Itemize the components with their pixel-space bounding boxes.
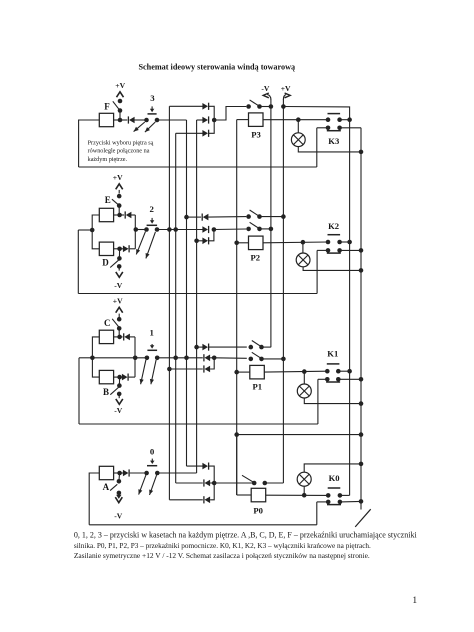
node: P2 row2 b [257,227,262,232]
wire: A lead to contact [118,473,121,481]
wire: bottom diode out [209,120,215,133]
press arm 1a [141,360,146,384]
bracket: C/B common [92,337,99,377]
wire: B merge corner [134,358,136,377]
wire: top diode line [187,216,202,218]
wire: lamp3 bottom to return bus [298,147,361,152]
svg-text:równolegle połączone na: równolegle połączone na [88,148,150,155]
node: E/D merge [134,227,139,232]
node: contact 0b [155,471,160,476]
node: K2 feed junction [347,240,352,245]
node: K1 lower b [336,377,341,382]
press arm 3a [134,122,145,132]
press arm 1b [151,360,156,384]
node: D switch lower dot [117,264,122,269]
wire: P3 drive line up [214,107,246,121]
diode floor2 top [203,214,209,221]
diode floor3 middle [202,117,208,124]
svg-text:K2: K2 [328,221,339,231]
svg-text:2: 2 [149,204,154,214]
svg-text:P2: P2 [251,252,261,262]
node: D switch upper dot [117,256,122,261]
wire: F contact to row [119,111,121,121]
svg-text:1: 1 [412,596,417,606]
node: K3 lower b [337,126,342,131]
-V terminal arrow (floor 1) [116,399,123,404]
node: contact 1b [155,356,160,361]
node: P2 row2 a [246,227,251,232]
node: +V top junction [281,104,286,109]
K2 lower closed-contact bar [327,252,341,254]
press arm 0b [150,475,157,495]
wire: floor1 top diode line [197,346,203,348]
svg-text:K0: K0 [329,473,340,483]
wire: -V bus [270,99,272,347]
node: K0 lower a [326,500,331,505]
pushbutton A [99,466,113,479]
wire: lamp2 top stem [302,242,304,253]
wire: left bus floor1 [78,358,80,424]
node: P2 row1 b [257,214,262,219]
node: P1 row2 b [259,357,264,362]
diode floor0 top [202,463,208,470]
node: P common tap [234,432,239,437]
wire: floor2 row to diode [157,229,203,231]
svg-text:P3: P3 [251,129,261,139]
node: lamp2 return junction [359,268,364,273]
wire: E merge corner [134,215,136,230]
wire: E contact down [118,206,120,215]
wire: P relay common bus [236,120,238,495]
relay coil P1 [250,365,264,379]
bridge bar of button 0 [147,465,157,467]
node: row junction bus B floor1 [173,356,178,361]
node: P1 row2 a [249,357,254,362]
wire: bus A top feed [169,105,202,107]
node: junction on bus E [194,239,199,244]
wire: C box right lead [114,336,120,338]
node: P3 contact a [246,104,251,109]
+V terminal arrow [285,93,291,98]
diode floor2 middle [202,226,208,233]
press arrow for button 1 [151,344,153,346]
wire: left bus floor2 [77,230,79,294]
diode at B [120,376,123,378]
node: P1 row1 b [259,345,264,350]
diode at D [120,248,124,250]
diode at A [120,472,124,474]
lamp L3 [291,133,305,147]
svg-text:3: 3 [150,93,155,103]
node: floor0 bracket junction [212,481,217,486]
diode at E [120,214,125,216]
press arrow for button 2 [151,218,153,221]
wire: P2 right lead to K2 [263,241,328,244]
node: -V tap [269,104,274,109]
wire: floor3 interconnect [79,166,317,168]
contactor K2 bridge bar [328,234,341,236]
wire: P1 left lead [237,371,250,373]
node: contact 3a [144,118,149,123]
node: K2 lower b [337,248,342,253]
-V terminal arrow (floor 2) [116,272,123,277]
wire: bottom diode to bracket [210,483,214,500]
wire: P2 row1 to +V [260,216,284,218]
wire: P0 left corner [236,435,238,495]
node: +V tap floor2 [281,214,286,219]
svg-text:C: C [104,318,111,328]
svg-text:+V: +V [113,296,123,305]
node: K2 return junction [359,248,364,253]
node: K1 feed junction [347,369,352,374]
node: P0 contact b [263,481,268,486]
wire: K3 lower left [317,127,328,129]
pushbutton B [99,370,113,383]
press arm 0a [139,475,146,495]
node: K3 upper b [337,117,342,122]
wire: +V bus [282,99,284,483]
wire: P1 row1 to -V bus end [262,346,271,348]
svg-text:Zasilanie symetryczne +12 V /: Zasilanie symetryczne +12 V / -12 V. Sch… [74,551,370,560]
wire: mid junction to P1 row2 [214,357,247,360]
wire: return bus [360,128,362,510]
node: K2 lower a [326,248,331,253]
node: C switch upper dot [117,317,122,322]
diode floor1 top [202,344,208,351]
node: bracket mid floor1 [90,356,95,361]
wire: K0 lower left [317,501,328,503]
contactor K3 bridge bar [328,113,341,115]
wire: lamp3 top stem [297,120,299,133]
wire: bus B to floor0 middle diode [176,482,203,484]
wire: P2 row2 to -V [260,228,271,230]
wire: K1 lower right to return bus [338,378,361,380]
relay coil P3 [249,113,264,127]
+V terminal arrow (floor 3) [117,92,124,97]
wire: bus B to bottom diode [176,132,203,134]
wire: bottom out up [210,358,214,369]
relay contact P0 (arm) [242,475,253,482]
node: return bus tap [359,432,364,437]
svg-text:-V: -V [261,84,270,93]
wire: K1 lower left [318,378,327,380]
wire: P1 row2 to +V [262,358,284,360]
wire: bus D to floor0 top diode [187,465,203,467]
node: row junction bus D floor1 [184,356,189,361]
node: K0 upper a [326,493,331,498]
node: K3 lower a [326,126,331,131]
wire: K0 upper b to feed bus [340,494,350,496]
node: junction at D button [117,247,122,252]
wire: K1 upper b to feed bus [338,370,349,372]
wire: bus A (x=169.4) [168,106,170,500]
wire: K2 lower left [317,249,328,251]
K0 lower closed-contact bar [327,504,341,506]
relay contact F (arm) [113,101,120,110]
wire: K0 lower right to return bus [340,500,361,503]
node: contact 3b [155,118,160,123]
wire: floor-3 call to bus D [157,119,187,121]
node: junction at A button [117,471,122,476]
node: junction at C button [117,335,122,340]
wire: P0 left lead [237,494,252,496]
node: F switch lower dot [118,108,123,113]
wire: D lead to contact [118,249,120,259]
svg-text:F: F [104,102,110,112]
node: P2 left junction [234,241,239,246]
svg-text:silnika. P0, P1, P2, P3 – prze: silnika. P0, P1, P2, P3 – przekaźniki po… [74,542,371,550]
node: B switch lower dot [117,392,122,397]
wire: floor1 row [92,357,146,359]
node: contact 2b [155,227,160,232]
wire: K2 upper b to feed bus [340,241,350,243]
svg-text:0: 0 [150,446,155,456]
press arm 2a [136,232,145,255]
bracket: E/D common [92,215,99,249]
svg-text:+V: +V [113,173,123,182]
wire: E box right lead [114,214,120,216]
diode floor0 middle [205,480,211,487]
svg-text:Przyciski wyboru piętra są: Przyciski wyboru piętra są [88,139,154,146]
node: K2 upper b [337,240,342,245]
node: K0 return junction [359,499,364,504]
node: lamp1 return junction [359,401,364,406]
relay contact B (arm) [110,387,118,394]
node: K1 lower a [325,377,330,382]
+V terminal arrow (floor 2) [116,184,123,189]
node: junction on bus A floor1 [167,367,172,372]
node: K1 return junction [359,377,364,382]
node: P0 contact a [252,481,257,486]
main switch (diagonal) [355,509,371,527]
wire: floor0 interconnect [89,524,317,526]
wire: P1 right lead to K1 [264,370,327,373]
node: lamp1 top [302,369,307,374]
svg-text:Schemat ideowy sterowania wind: Schemat ideowy sterowania windą towarową [138,62,295,71]
wire: bus E (x=196.6) [196,120,198,473]
relay contact P1b (arm) [252,352,262,358]
wire: K2 lower right to return bus [340,249,361,251]
K3 lower closed-contact bar [327,130,341,132]
-V terminal arrow (floor 0) [116,495,121,499]
wire: C merge corner [134,337,136,358]
node: -V tap floor2 [269,227,274,232]
wire: B chevron stem [118,394,120,398]
diode floor2 bottom [202,238,208,245]
wire: P3 contact to -V [260,106,271,108]
wire: floor0 row to bus E [157,472,197,474]
wire: K3 lower right to return bus [340,127,361,129]
wire: P3 left lead [237,119,249,121]
node: K0 lower b [338,500,343,505]
contactor K0 bridge bar [328,487,341,489]
node: contact 2a [144,227,149,232]
relay contact E (arm) [112,199,119,205]
node: junction on bus E floor1 [194,345,199,350]
node: floor2 mid out [212,227,217,232]
bridge bar of button 2 [147,224,158,226]
diode floor1 middle [205,355,211,362]
node: lamp0 bottom junction [302,493,307,498]
svg-text:0, 1, 2, 3 – przyciski w kaset: 0, 1, 2, 3 – przyciski w kasetach na każ… [74,531,418,540]
svg-text:K1: K1 [327,348,338,358]
relay coil P0 [251,488,266,502]
wire: bus B (x=175.7) [175,133,177,483]
diode floor3 top [202,103,208,110]
svg-text:E: E [105,195,111,205]
node: C switch lower dot [117,326,122,331]
node: C/B merge [133,356,138,361]
contactor K1 bridge bar [327,363,340,365]
node: P1 row1 a [249,345,254,350]
wire: bracket to left bus floor1 [79,357,92,359]
wire: bus E to middle diode [197,119,203,121]
wire: K3 riser [316,128,318,167]
node: row junction bus B [173,227,178,232]
node: +V tap floor1 [281,357,286,362]
wire: floor1 interconnect [79,423,318,425]
wire: P common to return bus [237,434,361,436]
wire: bottom diode out [209,230,214,241]
press arm 2b [146,232,156,259]
svg-text:A: A [103,482,110,492]
wire: F button left lead down [79,120,100,167]
svg-text:D: D [102,257,109,267]
wire: K2 riser [316,250,318,293]
svg-text:-V: -V [114,512,123,521]
node: A switch upper dot [117,479,122,484]
node: K3 feed junction [347,117,352,122]
svg-text:P0: P0 [253,505,263,515]
wire: A box right lead [114,472,120,474]
node: B switch upper dot [117,383,122,388]
wire: P2 left lead [237,242,249,244]
bridge bar of button 1 [147,349,157,351]
-V terminal arrow [263,93,269,98]
wire: +V to K3 feed [283,107,349,120]
wire: bottom diode line [197,240,203,242]
wire: lamp0 top to return bus [304,464,361,472]
diode floor0 bottom [205,497,211,504]
lamp L1 [297,384,311,398]
svg-text:każdym piętrze.: każdym piętrze. [88,156,128,163]
+V terminal arrow (floor 1) [116,307,123,312]
wire: lamp1 top stem [303,372,305,384]
svg-text:+V: +V [281,84,291,93]
node: contact 0a [144,471,149,476]
press arm 3b [145,122,155,132]
node: A switch lower dot [117,491,122,496]
relay contact C (arm) [112,319,119,327]
diode floor3 bottom [202,130,208,137]
node: floor3 diode output [212,118,217,123]
pushbutton E [99,208,113,221]
node: lamp3 top [296,117,301,122]
wire: P0 right lead to K0 [266,494,329,496]
wire: lamp1 bottom to return bus [304,398,361,404]
wire: bracket to P0 contact [214,482,252,484]
wire: floor2 row [135,229,146,231]
wire: bus D (x=186.5) [186,120,188,466]
node: F switch upper dot [118,99,123,104]
diode at F [120,119,127,121]
wire: mid out to P2 row2 [214,228,246,231]
wire: D box right lead [114,248,120,250]
diode floor1 bottom [205,366,211,373]
relay contact A (arm) [110,484,117,490]
node: floor1 mid junction [212,356,217,361]
pushbutton F (relay coil box) [99,113,113,126]
node: contact 1a [145,356,150,361]
node: junction at B button [117,375,122,380]
pushbutton D [99,242,113,255]
node: E switch upper dot [117,194,122,199]
node: K0 upper b [338,493,343,498]
node: E switch lower dot [117,203,122,208]
node: junction on bus D [184,215,189,220]
press arrow for button 3 [151,106,153,109]
node: junction at E button [117,213,122,218]
node: K3 upper a [326,117,331,122]
wire: top diode to bracket [209,466,215,483]
node: lamp3 return junction [359,150,364,155]
lamp L2 [296,253,310,267]
K1 lower closed-contact bar [326,381,340,383]
wire: P0 contact to +V bus end [265,482,284,484]
wire: D merge corner [134,230,136,249]
wire: P3 right lead to K3 [263,119,328,121]
node: bracket mid [90,228,95,233]
wire: floor1 bottom diode line [169,368,202,370]
node: lamp2 top [301,240,306,245]
relay coil P2 [249,236,264,250]
relay contact P2b (arm) [250,222,260,228]
node: K1 upper b [336,369,341,374]
relay contact P2a (arm) [250,210,260,216]
node: lamp0 top return junction [359,462,364,467]
wire: diode out to P3 node [209,106,215,120]
node: row junction bus A [167,227,172,232]
wire: lamp2 bottom to return bus [303,267,361,271]
wire: bus A to floor0 bottom diode [169,499,202,501]
press arrow for button 0 [151,459,153,462]
svg-text:K3: K3 [328,136,339,146]
relay contact P1a (arm) [252,341,262,347]
node: junction at F button [118,118,123,123]
wire: D chevron stem [118,266,120,270]
svg-text:1: 1 [149,328,153,338]
pushbutton C [99,330,113,343]
wire: K0 riser [316,502,318,525]
svg-text:+V: +V [115,81,125,90]
wire: K3 upper b to feed bus [340,119,350,121]
wire: C contact down [118,328,120,337]
wire: K1 riser [317,379,319,424]
wire: E chevron stem [118,190,120,193]
relay contact P3 (arm) [250,100,260,106]
node: K2 upper a [326,240,331,245]
wire: B box right lead [114,376,120,378]
wire: F box right lead [114,119,120,121]
node: P1 left junction [234,370,239,375]
svg-text:P1: P1 [253,381,263,391]
svg-text:-V: -V [114,406,123,415]
node: P3 contact b [257,104,262,109]
wire: B lead to contact [118,377,120,386]
lamp L0 [297,472,311,486]
wire: A button left lead down [89,473,99,525]
svg-text:-V: -V [114,281,123,290]
